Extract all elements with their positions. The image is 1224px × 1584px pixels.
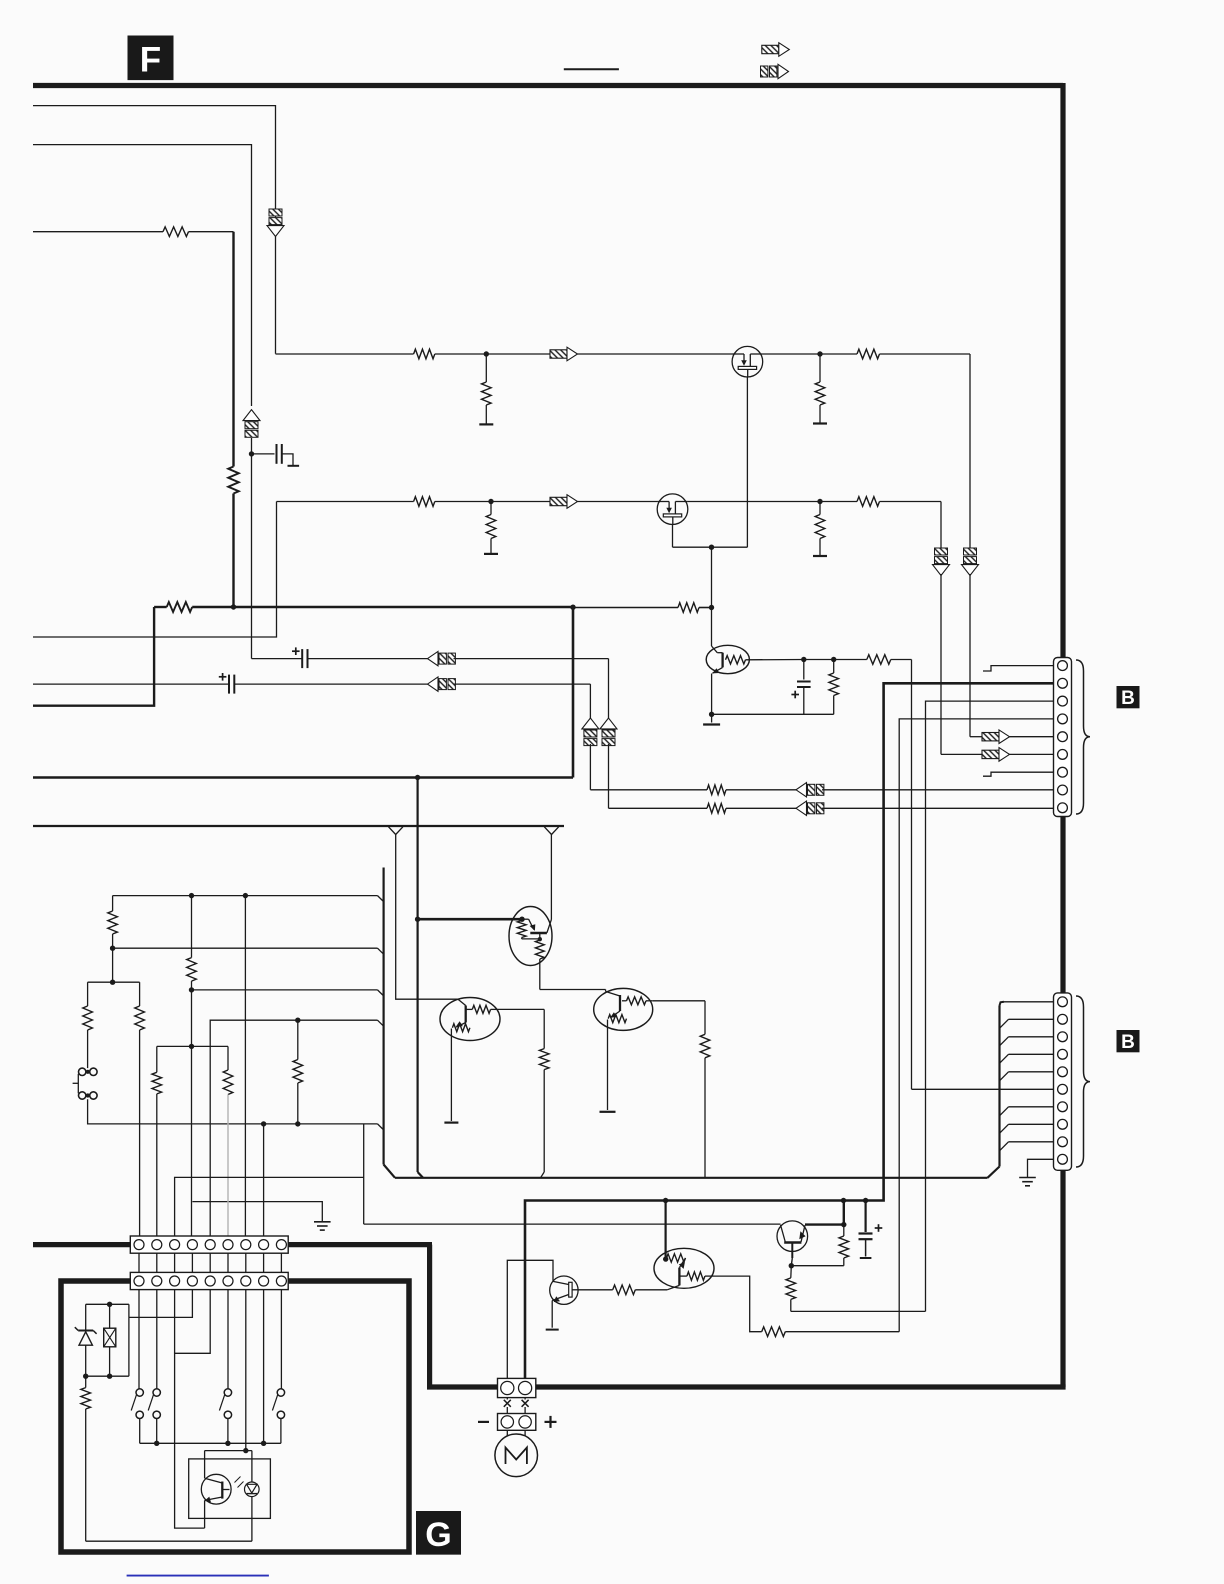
transistor Q4 digital bbox=[706, 645, 749, 673]
svg-text:G: G bbox=[425, 1516, 451, 1554]
node: junction x=665.6 y=1200.5 bbox=[663, 1198, 668, 1203]
node: junction x=711.5 y=607.5 bbox=[709, 605, 714, 610]
connector CN row2 pin 8 bbox=[259, 1276, 269, 1286]
connector CN row2 pin 2 bbox=[152, 1276, 162, 1286]
resistor R x=843.8 bbox=[839, 1236, 849, 1258]
connector CN row1 pin 9 bbox=[276, 1240, 286, 1250]
connector CN row2 pin 6 bbox=[223, 1276, 233, 1286]
wire: diode block rails bbox=[128, 1317, 130, 1376]
wire: row2 pin1 to SW1 bbox=[138, 1290, 140, 1389]
resistor R below row2 right junction x=820 bbox=[819, 502, 821, 515]
connector CN motor lower bbox=[498, 1414, 536, 1431]
resistor R row1 left bbox=[414, 349, 435, 359]
wire: row2 pin8 to switch bus bbox=[263, 1290, 265, 1444]
LED D2 in photo-interrupter bbox=[245, 1482, 260, 1497]
diode D1 zener bbox=[78, 1330, 93, 1332]
wire: y=1541.2 bottom run bbox=[86, 1540, 252, 1542]
connector B1 pin 5 bbox=[1058, 732, 1068, 742]
arrow: left arrow on y=684.1 bbox=[428, 677, 439, 691]
wire: pin4 feed from x=899.2 bbox=[899, 719, 1053, 1332]
connector B2 pin 5 bbox=[1058, 1067, 1068, 1077]
wire: line y=105.6 from left edge bbox=[33, 106, 276, 354]
wire: line y=684.1 from left edge bbox=[33, 683, 229, 685]
capacitor C electrolytic at x=803.8 bbox=[803, 660, 805, 680]
connector CN row2 pin 9 bbox=[276, 1276, 286, 1286]
node: junction x=711.6 y=714.3 bbox=[709, 712, 714, 717]
wire: x=251.9 up through LED bbox=[251, 1497, 253, 1542]
bus entry stub y=1020.2 bbox=[378, 1020, 384, 1026]
connector B1 pin 6 bbox=[1058, 750, 1068, 760]
resistor R base Q_a bbox=[613, 1285, 636, 1295]
wire: thick path pin2 - x=883.6 - y=1200.5 - x=525 bbox=[525, 683, 1054, 1378]
connector B2 pin 6 bbox=[1058, 1084, 1068, 1094]
wire: x=191.5 down to ground tee and pin4 bbox=[191, 1046, 193, 1237]
wire: x=156.8 chain to pin2 bbox=[156, 1046, 158, 1072]
resistor R x=191.5 bbox=[187, 958, 197, 982]
tiny mark lambda arrows bbox=[235, 1477, 241, 1483]
wire: Q_a emitter to ground stub bbox=[551, 1301, 553, 1328]
wire: Q_b emitter bbox=[791, 1243, 793, 1259]
wire: Q2 emitter down bbox=[450, 1029, 452, 1122]
wire: switch bottom to y=1123.9 bbox=[88, 1099, 378, 1124]
node: junction x=251.5 y=453.9 with capacitor to stub bbox=[249, 451, 254, 456]
resistor R x=544.2 bbox=[539, 1049, 549, 1070]
transistor Q3 digital bbox=[594, 988, 653, 1030]
label F section box bbox=[128, 36, 174, 81]
connector CN row2 pin 3 bbox=[170, 1276, 180, 1286]
resistor R below row1 right junction x=820 bbox=[819, 354, 821, 382]
transistor Q2 digital bbox=[440, 998, 500, 1041]
capacitor C on y=684.1 bbox=[228, 675, 230, 694]
wire: x=297.8 resistor chain bbox=[297, 1020, 299, 1059]
node: junction x=711.5 y=547.2 bbox=[709, 545, 714, 550]
wire: row2 pin6 to SW3 bbox=[227, 1290, 229, 1389]
connector CN row1 body bbox=[130, 1236, 288, 1253]
wire: thick vertical x=573 between y=607 and y=777.5 bbox=[572, 607, 575, 778]
connector CN row2 pin 5 bbox=[205, 1276, 215, 1286]
arrow: top hatched signal arrow right 2 bbox=[761, 66, 768, 77]
wire: FET1 source down x=747.4 bbox=[746, 377, 748, 547]
wire: B2 pin 5 fan stub bbox=[1000, 1072, 1009, 1081]
wire: pin1 stub bbox=[983, 666, 1054, 671]
node: junction x=191.5 y=895.6 bbox=[189, 893, 194, 898]
wire: y=1311.4 to x=925.5 bbox=[791, 1310, 926, 1312]
wire: thick bus y=1244.6 right of connector bbox=[288, 1242, 433, 1247]
resistor R at x=833.7 bbox=[833, 660, 835, 674]
bus entry stub y=895.6 bbox=[378, 896, 384, 902]
node: junction x=843.5 y=1200.5 bbox=[841, 1198, 846, 1203]
resistor R x=112.6 bbox=[108, 911, 118, 934]
wire: x=911.5 down to pin6 line bbox=[911, 660, 913, 1090]
resistor R x=85.7 bbox=[85, 1376, 87, 1387]
wire: x=608.5 down with up-arrow bbox=[608, 659, 610, 718]
connector B1 pin 1 bbox=[1058, 661, 1068, 671]
node: junction row2 x=820 bbox=[817, 499, 822, 504]
wire: Q3 collector out right bbox=[653, 1000, 705, 1002]
resistor R pin9 line bbox=[707, 804, 726, 814]
label B lower bbox=[1117, 1030, 1140, 1052]
wire: B2 pin 2 fan stub bbox=[1000, 1019, 1009, 1028]
wire: line y=948.2 to bus bbox=[113, 947, 378, 949]
wire: emitter rail y=1265.7 bbox=[791, 1265, 844, 1267]
wire: B2 pin 8 fan stub bbox=[1000, 1124, 1009, 1133]
node: junction x=843.8 y=1224.6 bbox=[841, 1222, 846, 1227]
transistor Q_a bbox=[550, 1276, 578, 1304]
wire: x=112.6 down chain bbox=[112, 896, 114, 911]
wire: inter-connector stubs bbox=[506, 1398, 508, 1400]
switch S1 dual contacts bbox=[79, 1068, 86, 1075]
wire: x=251.5 below arrow to y=658.6 bbox=[251, 438, 253, 659]
wire: y=1376.2 rail bbox=[86, 1375, 129, 1377]
wire: Q7 collector out right bbox=[714, 1276, 762, 1332]
arrow: hatched arrow right to pin5 bbox=[982, 733, 999, 741]
bus: right edge x=999.5 bbox=[998, 1006, 1000, 1167]
resistor R on thick y=607 bbox=[167, 602, 193, 612]
connector B2 pin 3 bbox=[1058, 1032, 1068, 1042]
wire: line y=231.7 with resistor R to thick vertical bbox=[33, 231, 163, 233]
node: junction x=417.6 y=777.5 bbox=[415, 775, 420, 780]
node: junction x=263.6 y=1123.9 bbox=[261, 1121, 266, 1126]
wire: thick line y=607 bbox=[154, 606, 167, 608]
connector B1 pin 9 bbox=[1058, 803, 1068, 813]
connector CN row1 pin 8 bbox=[259, 1240, 269, 1250]
connector CN row2 pin 7 bbox=[241, 1276, 251, 1286]
wire: Q_a base to resistor bbox=[578, 1289, 613, 1291]
wire: thick bus y=1244.6 left of connector bbox=[33, 1242, 131, 1247]
connector B2 pin 4 bbox=[1058, 1049, 1068, 1059]
wire: line y=658.6 from x=251.5 corner bbox=[252, 658, 303, 660]
resistor R on y=231.7 bbox=[163, 227, 189, 237]
wire: pin3 feed from x=925.5 bbox=[926, 701, 1054, 1311]
resistor R x=705 bbox=[700, 1034, 710, 1058]
transistor Q FET2 bbox=[657, 494, 688, 525]
label plus bbox=[545, 1421, 557, 1423]
wire: FET2 source down x=672.5 bbox=[672, 525, 674, 548]
resistor R x=297.8 bbox=[293, 1060, 303, 1084]
wire: row2 pin5 to jog bbox=[175, 1290, 211, 1529]
transistor Q7 digital bbox=[654, 1248, 714, 1288]
wire: gray segment x=228 bbox=[227, 1095, 229, 1238]
wire: pin7 stub bbox=[983, 772, 1054, 776]
wire: Q1 to Q3 y=989.5 bbox=[540, 989, 606, 991]
svg-text:B: B bbox=[1121, 1032, 1135, 1053]
capacitor C electrolytic x=865.6 bbox=[864, 1201, 866, 1233]
wire: B2 pin10 ground bbox=[1028, 1159, 1054, 1177]
wire: x=397 down to Q2 entry bbox=[396, 835, 458, 1000]
wire: Q_b collector thick to x=843.8 bbox=[805, 1223, 844, 1225]
node: junction x=191.5 y=1046.4 bbox=[189, 1044, 194, 1049]
svg-text:B: B bbox=[1121, 688, 1135, 709]
wire: row2 pin9 to SW4 bbox=[280, 1290, 282, 1389]
wire: x=551.5 down to Q1 collector bbox=[550, 835, 552, 920]
x mark pin1 bbox=[504, 1400, 511, 1407]
wire: switch common bus y=1443.3 bbox=[140, 1442, 281, 1444]
border: right thick edge middle bbox=[1060, 815, 1065, 994]
node: junction row1 x=820 bbox=[817, 351, 822, 356]
connector CN row1 pin 2 bbox=[152, 1240, 162, 1250]
border: top thick edge bbox=[33, 83, 1063, 88]
wire: x=941 down from row2 bbox=[940, 502, 942, 549]
resistor R x=139.6 bbox=[135, 1006, 145, 1030]
border: right thick edge lower bbox=[1060, 1169, 1065, 1387]
svg-text:F: F bbox=[140, 40, 161, 79]
arrow: top hatched signal arrow right 1 bbox=[762, 45, 779, 53]
wire: pin6 line y=1089.3 bbox=[912, 1088, 1054, 1090]
wire: y=547.2 join segment bbox=[673, 546, 748, 548]
node: junction x=233.5 y=607 bbox=[231, 604, 236, 609]
node: junction x=417.6 y=919.2 bbox=[415, 917, 420, 922]
wire: thick vertical x=417.6 down into bus bbox=[417, 778, 419, 1173]
wire: line y=144.6 from left edge bbox=[33, 145, 252, 406]
resistor R right of Q4 bbox=[867, 655, 891, 665]
wire: row2 y=501.5 left corner x=276.5 bbox=[277, 501, 414, 503]
bus: left edge x=383.6 bbox=[383, 868, 385, 1165]
arrow: hatched arrow right to pin6 bbox=[982, 750, 999, 758]
wire: rail y=1046.4 bbox=[157, 1045, 228, 1047]
connector B2 pin 7 bbox=[1058, 1102, 1068, 1112]
node: junction x=803.8 y=659.5 bbox=[801, 657, 806, 662]
funnel wire entry x=395.5 bbox=[389, 827, 396, 835]
component X1 crossed box bbox=[109, 1304, 111, 1328]
node: junction x=191.5 y=989.9 bbox=[189, 987, 194, 992]
connector CN motor upper bbox=[498, 1378, 536, 1397]
resistor R x=156.8 bbox=[152, 1072, 162, 1094]
unit G outline box bbox=[61, 1281, 409, 1552]
label G section box bbox=[416, 1511, 461, 1555]
bus entry stub y=948.2 bbox=[378, 948, 384, 954]
wire: ground branch y=1201.6 bbox=[192, 1202, 322, 1222]
label minus bbox=[478, 1421, 489, 1423]
node: junction x=245.4 y=895.6 bbox=[243, 893, 248, 898]
arrow: left arrow pin8 line bbox=[796, 783, 807, 797]
arrow: left arrow pin9 line bbox=[796, 801, 807, 815]
wire: y=714.3 emitter rail bbox=[712, 713, 834, 715]
wire: x=139.6 to row pin1 bbox=[139, 982, 141, 1006]
wire: row2 pin4 zigzag to diode block bbox=[129, 1290, 193, 1318]
wire: y=1450.6 top rail bbox=[205, 1450, 252, 1452]
connector CN row1 pin 7 bbox=[241, 1240, 251, 1250]
wire: Q3 emitter down bbox=[607, 1020, 609, 1111]
connector CN row1 pin 1 bbox=[134, 1240, 144, 1250]
x mark pin2 bbox=[522, 1400, 529, 1407]
wire: x=228 chain to pin6 bbox=[227, 1046, 229, 1070]
resistor R x=87.6 bbox=[83, 1006, 93, 1030]
wire: x=276.5 down to y=637 bbox=[33, 502, 277, 638]
wire: thick vertical x=233.5 bbox=[232, 232, 234, 467]
node: junction x=297.8 y=1123.9 bbox=[295, 1121, 300, 1126]
arrow: down arrow on x=970 bbox=[964, 548, 977, 555]
connector B1 pin 7 bbox=[1058, 767, 1068, 777]
arrow: row2 hatched arrow right bbox=[550, 497, 567, 505]
transistor Q FET1 bbox=[732, 346, 763, 377]
node: junction x=112.6 y=982.2 bbox=[110, 980, 115, 985]
wire: pin8 line y=789.8 bbox=[590, 789, 707, 791]
wire: pin3 riser and jog y=1177.4 bbox=[175, 1177, 364, 1237]
transistor Q8 photo bbox=[204, 1451, 206, 1479]
wire: thick line y=777.5 bbox=[33, 776, 573, 779]
connector B1 pin 2 bbox=[1058, 678, 1068, 688]
wire: x=590.4 down with up-arrow bbox=[589, 684, 591, 718]
resistor R on y=607.5 bbox=[678, 603, 699, 613]
arrow: down arrow on x=941 bbox=[935, 548, 948, 555]
wire: thick feed into Q7 bbox=[664, 1201, 666, 1260]
wire: x=705 down chain bbox=[704, 1001, 706, 1035]
arrow: row1 hatched arrow right bbox=[550, 350, 567, 358]
node: junction x=573 y=607 bbox=[570, 605, 575, 610]
ground symbol bbox=[314, 1221, 331, 1223]
node: junction x=865.6 y=1200.5 bbox=[863, 1198, 868, 1203]
resistor R below x=790.8 bbox=[790, 1266, 793, 1278]
wire: Q8 emitter down bbox=[204, 1500, 206, 1528]
resistor R Q1 emitter bbox=[539, 933, 541, 939]
resistor R on y=1331.7 bbox=[762, 1327, 786, 1337]
resistor R row1 right bbox=[857, 349, 880, 359]
connector B2 pin 8 bbox=[1058, 1119, 1068, 1129]
ground symbol B2 pin10 bbox=[1019, 1177, 1036, 1179]
connector B2 pin 2 bbox=[1058, 1014, 1068, 1024]
wire: line y=989.9 to bus bbox=[192, 989, 378, 991]
node: junction x=297.8 y=1020.2 bbox=[295, 1018, 300, 1023]
node: junction x=112.6 y=948.2 bbox=[110, 946, 115, 951]
capacitor C on y=658.6 bbox=[301, 649, 303, 668]
wire: Q_a collector riser bbox=[507, 1260, 553, 1378]
wire: bus line y=826 bbox=[33, 825, 564, 827]
wire: x=154.1 corner down to y=705.7 then left bbox=[33, 607, 154, 706]
wire: rail y=982.2 bbox=[88, 981, 140, 983]
transistor Q_b bbox=[777, 1221, 808, 1252]
arrow: up arrow on x=251.5 bbox=[243, 410, 260, 421]
bus: bottom edge y=1177.8 bbox=[395, 1177, 988, 1179]
resistor R x=228 bbox=[223, 1070, 233, 1095]
connector CN row1 pin 3 bbox=[170, 1240, 180, 1250]
wire: B2 pin 7 fan stub bbox=[1000, 1107, 1009, 1116]
connector CN row2 pin 1 bbox=[134, 1276, 144, 1286]
connector B1 pin 3 bbox=[1058, 696, 1068, 706]
bus entry stub y=989.9 bbox=[378, 990, 384, 996]
connector B1 pin 4 bbox=[1058, 714, 1068, 724]
wire: x=843.8 resistor chain bbox=[843, 1201, 845, 1225]
switch S2 contacts bbox=[136, 1389, 143, 1396]
label B upper bbox=[1117, 686, 1140, 708]
wire: row2 pin3 drop bbox=[174, 1290, 176, 1354]
wire: row2 pin2 to SW2 bbox=[156, 1290, 158, 1389]
blue underline bottom bbox=[127, 1575, 269, 1577]
resistor R row2 right bbox=[857, 497, 880, 507]
connector B2 pin 10 bbox=[1058, 1154, 1068, 1164]
wire: x=263.6 to pin8 bbox=[263, 1124, 265, 1237]
node: junction x=833.7 y=659.5 bbox=[831, 657, 836, 662]
transistor Q1 digital bbox=[509, 907, 552, 966]
connector B2 body bbox=[1054, 993, 1072, 1170]
connector B2 pin 9 bbox=[1058, 1137, 1068, 1147]
wire: B2 pin 9 fan stub bbox=[1000, 1142, 1009, 1151]
connector CN row2 pin 4 bbox=[187, 1276, 197, 1286]
brace for connector B2 bbox=[1076, 996, 1090, 1167]
arrow: down arrow on x=275.5 bbox=[269, 209, 282, 216]
wire: Q2 collector out right to x=544.2 bbox=[498, 1008, 545, 1010]
wire: Q4 emitter down bbox=[711, 674, 713, 715]
bus entry stub y=1123.9 bbox=[378, 1124, 384, 1130]
wire: x=711.5 down to thick line bbox=[711, 547, 713, 608]
wire: x=363.7 link 1123.9 to 1224 bbox=[363, 1124, 365, 1224]
connector B2 pin 1 bbox=[1058, 997, 1068, 1007]
wire: x=87.6 down to switch bbox=[87, 982, 89, 1006]
wire: row1 y=354 left segment bbox=[276, 353, 414, 355]
connector CN row2 body bbox=[130, 1272, 288, 1289]
connector B1 pin 8 bbox=[1058, 785, 1068, 795]
wire: pin9 line y=808.3 bbox=[609, 807, 708, 809]
resistor R on x=233.5 bbox=[228, 467, 238, 494]
brace for connector B1 bbox=[1076, 660, 1090, 814]
wire: top short underline bbox=[564, 68, 619, 70]
connector CN row1 pin 6 bbox=[223, 1240, 233, 1250]
photo-interrupter outline box bbox=[189, 1459, 271, 1519]
connector CN row1 pin 4 bbox=[187, 1240, 197, 1250]
connector B1 body bbox=[1054, 658, 1072, 817]
border: right thick edge upper bbox=[1060, 83, 1065, 658]
funnel wire entry x=551.5 bbox=[544, 827, 551, 835]
wire: row wires between connectors and stubs above/below bbox=[138, 1253, 140, 1272]
wire: line y=1020.2 bbox=[210, 1020, 377, 1237]
wire: x=970 down from row1 bbox=[969, 354, 971, 548]
wire: B2 pin 3 fan stub bbox=[1000, 1037, 1009, 1046]
resistor R below row1 mid junction x=486.3 bbox=[484, 351, 489, 356]
wire: line y=895.6 bbox=[113, 895, 378, 897]
wire: x=245.4 long drop to pin7 bbox=[244, 896, 246, 1237]
border: bottom thick edge bbox=[427, 1384, 1066, 1389]
wire: B2 pin 4 fan stub bbox=[1000, 1054, 1009, 1063]
arrow: left arrow on y=658.6 bbox=[428, 651, 439, 665]
wire: y=1224.1 run to Q_b base bbox=[364, 1223, 781, 1225]
motor M1 bbox=[506, 1430, 508, 1436]
wire: row2 pin7 to photo transistor node bbox=[245, 1290, 247, 1451]
wire: B2 pin1 feed from bus corner bbox=[1004, 1001, 1054, 1003]
resistor R pin8 line bbox=[707, 785, 726, 795]
wire: x=191.5 resistor chain bbox=[191, 896, 193, 958]
connector CN row1 pin 5 bbox=[205, 1240, 215, 1250]
resistor R below row2 mid junction x=491 bbox=[488, 499, 493, 504]
wire: x=711.5 from thick line down to Q4 bbox=[711, 608, 713, 647]
wire: thick base feed y=919.2 to Q1 bbox=[418, 918, 520, 921]
resistor R row2 left bbox=[414, 497, 435, 507]
node: junction x=791.3 y=1265.7 bbox=[789, 1263, 794, 1268]
wire: thick vertical x=429.6 to bottom border bbox=[427, 1245, 432, 1387]
